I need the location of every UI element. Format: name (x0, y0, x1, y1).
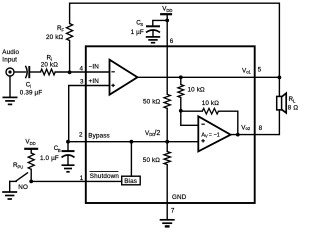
svg-text:5: 5 (258, 67, 262, 74)
svg-text:F: F (62, 28, 65, 33)
svg-text:o1: o1 (246, 69, 251, 74)
svg-text:S: S (140, 22, 143, 27)
svg-text:20 kΩ: 20 kΩ (41, 62, 59, 69)
svg-text:2: 2 (79, 132, 83, 139)
svg-text:i: i (30, 84, 31, 89)
svg-text:Bypass: Bypass (88, 133, 110, 140)
svg-text:DD: DD (30, 141, 36, 146)
svg-text:7: 7 (171, 207, 175, 214)
svg-text:50 kΩ: 50 kΩ (143, 99, 161, 106)
svg-text:10 kΩ: 10 kΩ (202, 100, 220, 107)
svg-text:1 µF: 1 µF (131, 29, 144, 36)
svg-text:Audio: Audio (2, 49, 19, 56)
svg-text:50 kΩ: 50 kΩ (143, 157, 161, 164)
svg-text:/2: /2 (154, 128, 160, 137)
svg-text:4: 4 (80, 66, 84, 73)
svg-text:3: 3 (80, 79, 84, 86)
svg-text:1: 1 (80, 175, 84, 182)
svg-text:8 Ω: 8 Ω (288, 104, 299, 111)
svg-text:6: 6 (170, 38, 174, 45)
svg-text:1.0 µF: 1.0 µF (40, 155, 59, 162)
svg-text:0.39 µF: 0.39 µF (20, 90, 43, 97)
svg-text:DD: DD (166, 8, 172, 13)
svg-text:8: 8 (259, 125, 263, 132)
svg-text:−IN: −IN (89, 64, 100, 71)
svg-text:NO: NO (18, 184, 28, 191)
svg-text:20 kΩ: 20 kΩ (46, 34, 64, 41)
svg-text:=: = (209, 133, 212, 139)
svg-text:PU: PU (18, 164, 24, 169)
svg-text:Input: Input (2, 56, 17, 63)
svg-text:Bias: Bias (124, 178, 137, 185)
svg-text:L: L (293, 98, 296, 103)
svg-text:o2: o2 (246, 126, 251, 131)
svg-text:+IN: +IN (89, 78, 100, 85)
svg-text:10 kΩ: 10 kΩ (188, 86, 206, 93)
svg-text:GND: GND (172, 194, 187, 201)
svg-text:V: V (205, 133, 208, 138)
svg-text:B: B (58, 148, 61, 153)
svg-text:Shutdown: Shutdown (90, 173, 120, 180)
svg-text:−1: −1 (214, 133, 220, 139)
